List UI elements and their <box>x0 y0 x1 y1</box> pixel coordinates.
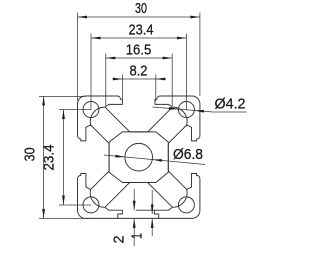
dimension 1 bottom (notch depth) <box>130 190 154 239</box>
corner boss arc bottom-right <box>173 189 188 207</box>
dimension 30 top (overall width) <box>78 1 200 101</box>
svg-text:2: 2 <box>112 236 128 244</box>
bottom cavity web edges <box>105 183 173 208</box>
dimension 23.4 left (corner hole spacing) <box>42 110 92 206</box>
corner hole bottom-left Ø4.2 <box>83 197 99 213</box>
svg-text:Ø4.2: Ø4.2 <box>215 97 246 113</box>
corner boss arc bottom-left <box>90 189 105 207</box>
dimension 8.2 top (slot opening) <box>112 64 165 102</box>
dimension 2 bottom (membrane depth) <box>112 189 136 246</box>
bottom closed-slot membrane outer part <box>154 207 172 210</box>
corner boss arc top-left <box>90 107 105 125</box>
dimension 16.5 top (slot cavity width) <box>106 43 172 107</box>
svg-text:Ø6.8: Ø6.8 <box>173 147 203 163</box>
dimension 30 left (overall height) <box>23 96 91 218</box>
corner boss arc top-right <box>173 107 188 125</box>
svg-text:30: 30 <box>135 1 147 17</box>
svg-text:16.5: 16.5 <box>126 43 152 59</box>
central cavity octagon <box>109 132 168 183</box>
dimension 23.4 top (corner hole spacing) <box>91 23 186 110</box>
leader Ø6.8 (center bore diameter) <box>104 147 205 164</box>
bottom closed-slot membrane left with Z-step <box>105 207 123 218</box>
corner hole top-right Ø4.2 <box>178 102 194 118</box>
center bore Ø6.8 <box>125 143 153 171</box>
svg-text:8.2: 8.2 <box>130 64 148 80</box>
corner hole bottom-right Ø4.2 <box>178 197 194 213</box>
svg-text:1: 1 <box>130 233 146 239</box>
profile outer contour with three open T-slots and web struts <box>78 96 200 218</box>
svg-text:23.4: 23.4 <box>42 145 58 171</box>
svg-text:30: 30 <box>23 147 39 161</box>
svg-text:23.4: 23.4 <box>129 23 154 39</box>
bottom closed-slot membrane right with Z-step <box>136 210 159 218</box>
leader Ø4.2 (corner hole diameter) <box>153 97 247 113</box>
corner hole top-left Ø4.2 <box>83 102 99 118</box>
